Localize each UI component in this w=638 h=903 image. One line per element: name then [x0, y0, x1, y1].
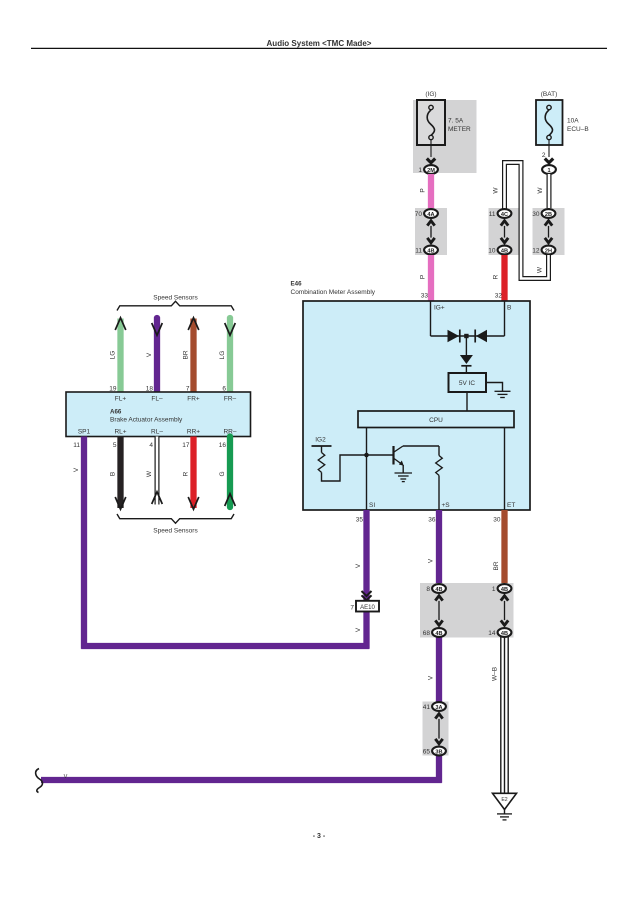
svg-text:7: 7 [350, 605, 354, 612]
wire B (RL+) [117, 437, 123, 509]
svg-text:Combination Meter Assembly: Combination Meter Assembly [291, 289, 376, 296]
svg-text:2B: 2B [545, 212, 552, 218]
wire W-B (ET) down [501, 637, 508, 793]
svg-text:30: 30 [532, 211, 540, 218]
arrow down (RR+) [188, 497, 199, 509]
arrow into connector 2M [427, 159, 435, 163]
connector pair 4A/4B grey block [415, 208, 447, 255]
svg-text:16: 16 [219, 442, 227, 449]
svg-text:7. 5A: 7. 5A [448, 118, 464, 125]
wire collector to resistor R2 [403, 445, 439, 447]
svg-text:V: V [428, 675, 435, 680]
arrow into connector 1 [545, 159, 553, 163]
svg-text:LG: LG [219, 351, 226, 360]
svg-text:Brake Actuator Assembly: Brake Actuator Assembly [110, 417, 183, 424]
svg-text:3B: 3B [435, 749, 442, 755]
connector pair 2B/2H grey block [533, 208, 565, 255]
svg-text:14: 14 [488, 630, 496, 637]
svg-text:SP1: SP1 [78, 429, 91, 436]
wire CPU to SI pin [366, 428, 368, 511]
svg-text:(BAT): (BAT) [541, 91, 558, 98]
svg-text:Speed Sensors: Speed Sensors [153, 528, 198, 535]
connector 4B (pin 11) [415, 246, 438, 255]
wire LG (FL+) [117, 319, 123, 393]
connector 3B (pin 65) [423, 747, 446, 756]
arrow up (FR+) [188, 318, 199, 330]
wire W (white) 2H loop to 4C [505, 163, 549, 279]
diode D2 (B side) [475, 330, 487, 343]
svg-text:33: 33 [421, 293, 429, 300]
node B [505, 301, 512, 336]
svg-text:32: 32 [495, 293, 503, 300]
connector 4B (pin 68) [423, 628, 446, 637]
junction dot [364, 453, 369, 458]
connector pair 3A/3B grey block [423, 702, 449, 756]
svg-text:5: 5 [113, 442, 117, 449]
svg-text:FL–: FL– [151, 396, 163, 403]
wire to diode D3 [465, 338, 467, 355]
svg-text:ECU–B: ECU–B [567, 126, 589, 133]
svg-text:65: 65 [423, 749, 431, 756]
svg-text:RL–: RL– [151, 429, 163, 436]
wire BR (ET) down [501, 510, 507, 585]
svg-text:METER: METER [448, 126, 471, 133]
connector 4B (pin 14) [488, 628, 511, 637]
svg-text:30: 30 [493, 517, 501, 524]
svg-text:4B: 4B [501, 631, 508, 637]
svg-text:5V IC: 5V IC [459, 380, 476, 387]
wire 5V IC to CPU [466, 392, 468, 411]
5V IC box [449, 373, 487, 392]
svg-text:BR: BR [493, 561, 500, 570]
svg-text:4B: 4B [427, 248, 434, 254]
svg-text:1: 1 [492, 586, 496, 593]
svg-text:1: 1 [418, 167, 422, 174]
svg-text:35: 35 [356, 517, 364, 524]
connector 1 [542, 165, 556, 174]
svg-text:IG+: IG+ [434, 305, 445, 312]
wire V (+S) down [436, 510, 442, 783]
CPU box [358, 411, 514, 428]
svg-text:Audio System <TMC Made>: Audio System <TMC Made> [267, 39, 372, 48]
svg-text:(IG): (IG) [425, 91, 436, 98]
svg-text:P: P [420, 275, 427, 279]
node IG2 [312, 437, 332, 453]
mating arrows 2B-2H [545, 221, 552, 243]
svg-text:ET: ET [507, 502, 515, 509]
svg-text:+S: +S [442, 502, 451, 509]
wire BR (FR+) [190, 319, 196, 393]
wire G (RR-) [227, 437, 233, 508]
mating arrows 4B-4B (ET) [501, 596, 508, 625]
svg-text:4: 4 [149, 442, 153, 449]
svg-text:FL+: FL+ [115, 396, 127, 403]
arrows into AE10 [362, 591, 372, 600]
svg-text:E2: E2 [501, 797, 507, 803]
title rule line [31, 47, 607, 49]
svg-text:CPU: CPU [429, 417, 443, 424]
svg-text:FR+: FR+ [187, 396, 200, 403]
connector 2B (pin 30) [532, 209, 555, 218]
svg-text:12: 12 [532, 248, 540, 255]
svg-text:8: 8 [426, 586, 430, 593]
ground (5V IC) [486, 383, 511, 398]
connector 4B (pin 10) [488, 246, 511, 255]
title Audio System [267, 39, 372, 48]
svg-text:2M: 2M [427, 168, 435, 174]
svg-text:W: W [537, 187, 544, 194]
svg-text:FR–: FR– [224, 396, 237, 403]
svg-text:36: 36 [428, 517, 436, 524]
wire R1 to base junction [322, 455, 367, 481]
svg-text:A66: A66 [110, 408, 122, 415]
svg-text:41: 41 [423, 704, 431, 711]
connector pair 4C/4B grey block [489, 208, 521, 255]
svg-text:4B: 4B [501, 248, 508, 254]
arrow up (RL-) [152, 492, 163, 504]
svg-text:V: V [428, 558, 435, 563]
wire V (SI) meter to junction [363, 510, 369, 649]
wire LG (FR-) [227, 318, 233, 392]
arrow down (RL+) [115, 497, 126, 509]
svg-text:BR: BR [183, 350, 190, 359]
wire V (SP1) down and right [81, 437, 369, 649]
ground (emitter) [395, 465, 413, 482]
connector 2H (pin 12) [532, 246, 555, 255]
mating arrows 4A-4B [427, 221, 434, 243]
mating arrows 4B-4B (+S) [435, 596, 442, 625]
svg-text:- 3 -: - 3 - [313, 833, 326, 840]
svg-text:W–B: W–B [492, 667, 499, 681]
svg-text:B: B [507, 305, 511, 312]
connector 4B (pin 1) [492, 584, 512, 593]
svg-text:IG2: IG2 [315, 437, 326, 444]
wire V (FL-) [154, 318, 160, 392]
arrow down (FR-) [225, 323, 236, 335]
svg-text:4A: 4A [427, 212, 434, 218]
svg-text:V: V [355, 563, 362, 568]
svg-text:11: 11 [415, 248, 422, 255]
svg-text:B: B [110, 472, 117, 476]
wire junction to base [367, 454, 394, 456]
connector 4B (pin 8) [426, 584, 446, 593]
svg-text:R: R [183, 471, 190, 476]
svg-text:17: 17 [182, 442, 190, 449]
svg-text:AE10: AE10 [360, 605, 375, 611]
svg-text:1: 1 [547, 168, 550, 174]
svg-text:W: W [493, 187, 500, 194]
wire R (RR+) [190, 437, 196, 509]
svg-text:70: 70 [415, 211, 423, 218]
connector AE10 (pin 7) [350, 601, 379, 612]
svg-text:E46: E46 [291, 281, 303, 288]
connector 3A (pin 41) [423, 702, 446, 711]
svg-text:4B: 4B [435, 587, 442, 593]
svg-text:4B: 4B [435, 631, 442, 637]
wire IG+ to B rail [431, 335, 505, 337]
svg-text:4C: 4C [501, 212, 508, 218]
wire P (pink) 2M to 4A [428, 174, 434, 209]
fuse block IG (7.5A METER) [413, 91, 477, 173]
mating arrows 3A-3B [435, 714, 442, 744]
svg-text:G: G [219, 471, 226, 476]
connector block grey (4B pairs) [420, 583, 514, 638]
svg-text:2: 2 [542, 152, 546, 159]
wire R (red) 4B to meter pin 32 [501, 255, 507, 301]
svg-text:3A: 3A [435, 705, 442, 711]
svg-text:P: P [420, 188, 427, 192]
fuse block BAT (10A ECU-B) [536, 91, 589, 159]
resistor R1 (IG2) [318, 453, 325, 473]
A66 Brake Actuator Assembly box [66, 392, 251, 437]
svg-text:RR+: RR+ [187, 429, 200, 436]
svg-text:4B: 4B [501, 587, 508, 593]
arrow down (FL-) [152, 323, 163, 335]
wire V long horizontal to continuation [41, 777, 442, 783]
wire P (pink) 4B to meter pin 33 [428, 255, 434, 301]
svg-text:V: V [355, 627, 362, 632]
svg-text:11: 11 [489, 211, 496, 218]
svg-text:W: W [146, 470, 153, 477]
diode D3 (down) [460, 355, 473, 373]
svg-text:V: V [73, 467, 80, 472]
resistor R2 (+S) [436, 446, 443, 510]
brace bottom [117, 514, 234, 523]
ground point E2 [493, 793, 517, 809]
node IG+ [431, 301, 445, 336]
svg-text:V: V [64, 774, 68, 780]
wire W (white) connector 1 to 2B [547, 174, 552, 209]
svg-text:SI: SI [369, 502, 375, 509]
transistor Q1 [394, 446, 404, 466]
svg-text:10: 10 [488, 248, 496, 255]
svg-text:RL+: RL+ [114, 429, 126, 436]
ground symbol [497, 810, 512, 820]
svg-text:68: 68 [423, 630, 431, 637]
continuation squiggle [36, 769, 43, 793]
svg-text:Speed Sensors: Speed Sensors [153, 295, 198, 302]
svg-text:LG: LG [110, 351, 117, 360]
arrow up (FL+) [115, 318, 126, 330]
wire W (RL-) [155, 437, 160, 505]
svg-text:W: W [537, 266, 544, 273]
connector 4C (pin 11) [489, 209, 512, 218]
svg-text:10A: 10A [567, 118, 579, 125]
diode D1 (IG+ side) [448, 330, 460, 343]
node junction square [464, 334, 468, 338]
svg-text:V: V [146, 352, 153, 357]
svg-text:2H: 2H [545, 248, 552, 254]
connector 2M (pin 1) [418, 165, 438, 174]
arrow up (RR-) [225, 494, 236, 506]
svg-text:11: 11 [73, 442, 80, 449]
E46 Combination Meter Assembly box [291, 281, 531, 511]
wire CPU to ET pin [504, 428, 506, 511]
connector 4A (pin 70) [415, 209, 438, 218]
mating arrows 4C-4B [501, 221, 508, 243]
svg-text:R: R [493, 274, 500, 279]
brace top [117, 301, 234, 310]
